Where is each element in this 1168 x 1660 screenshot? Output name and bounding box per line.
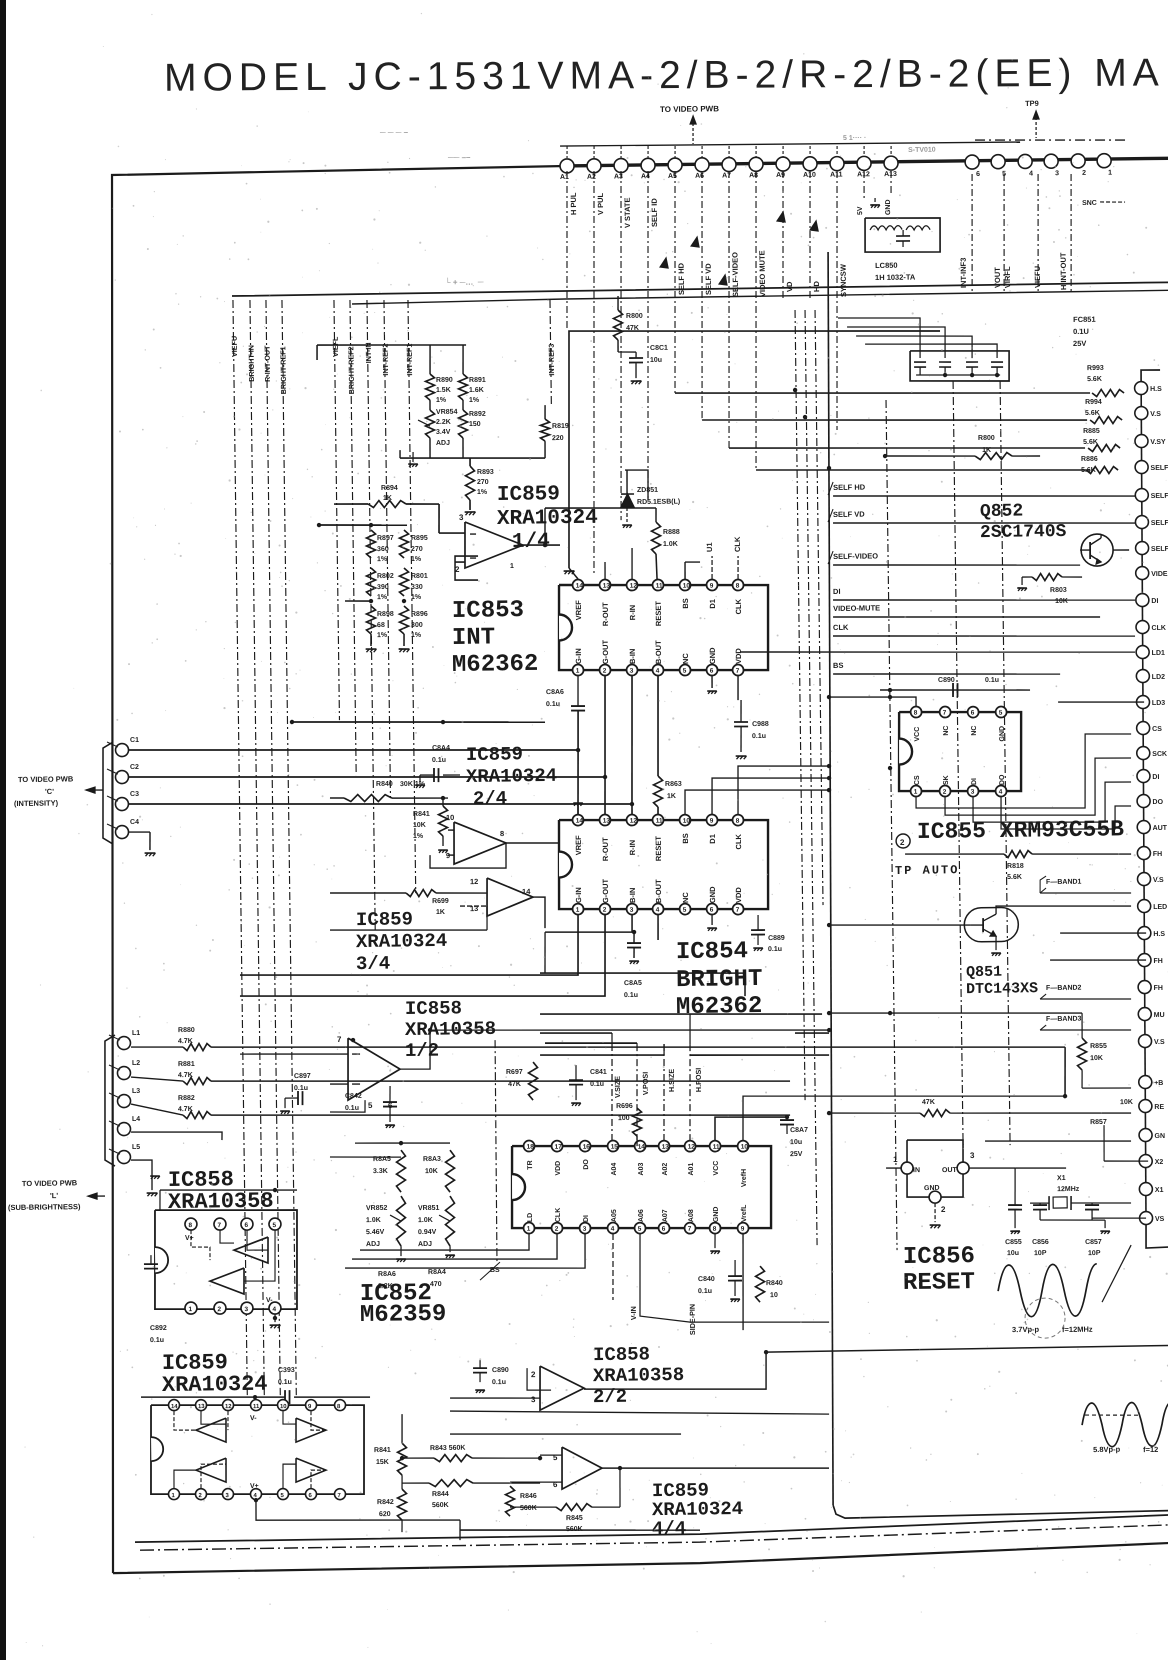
svg-text:XRA10358: XRA10358 — [168, 1189, 274, 1215]
IC858 pkg pin 7 — [214, 1218, 226, 1230]
svg-text:VIDEO-MUTE: VIDEO-MUTE — [833, 603, 880, 613]
svg-text:0.1u: 0.1u — [345, 1105, 359, 1112]
svg-text:5: 5 — [368, 1101, 373, 1110]
svg-text:17: 17 — [555, 1144, 563, 1151]
svg-text:CLK: CLK — [555, 1208, 562, 1222]
op-amp IC859 4/4 — [562, 1447, 603, 1490]
svg-text:10: 10 — [741, 1144, 749, 1151]
IC859 pkg pin 2 — [195, 1489, 206, 1500]
wire y1434 — [450, 1431, 681, 1437]
resistor R863 1K — [653, 776, 663, 807]
svg-text:2: 2 — [531, 1370, 536, 1379]
svg-text:1: 1 — [576, 668, 580, 675]
vertical dash line x805 — [805, 310, 817, 1245]
svg-text:0.1u: 0.1u — [752, 733, 766, 740]
svg-text:VREF: VREF — [574, 600, 583, 621]
svg-text:IC859: IC859 — [466, 743, 523, 766]
svg-text:R802: R802 — [377, 573, 394, 580]
arrow to video pwb — [692, 118, 695, 144]
vertical dash line x815 — [815, 310, 823, 905]
svg-text:V.SIZE: V.SIZE — [613, 1076, 622, 1098]
svg-text:C393: C393 — [278, 1367, 295, 1374]
IC859 pkg opamp A — [196, 1418, 227, 1442]
ground IC854 VREF — [577, 806, 579, 814]
wire R-OUT stub — [604, 562, 606, 580]
svg-text:47K: 47K — [922, 1099, 935, 1106]
svg-text:R993: R993 — [1087, 365, 1104, 372]
svg-text:560K: 560K — [520, 1505, 537, 1512]
svg-text:SK: SK — [943, 775, 950, 785]
svg-text:13: 13 — [662, 1144, 670, 1151]
svg-text:RESET: RESET — [903, 1269, 975, 1297]
svg-text:15: 15 — [611, 1144, 619, 1151]
svg-text:SELF: SELF — [1151, 520, 1168, 527]
resistor R846 560K — [505, 1486, 515, 1516]
svg-text:R-IN: R-IN — [628, 605, 637, 621]
connector pin 5 — [991, 155, 1005, 169]
capacitor C855 10u — [1008, 1204, 1022, 1206]
LC850 internal capacitor — [896, 235, 910, 237]
svg-text:R-OUT: R-OUT — [601, 602, 610, 626]
svg-text:1K: 1K — [667, 793, 676, 800]
terminal 17 DO — [1137, 794, 1150, 807]
svg-text:5.6K: 5.6K — [1087, 376, 1102, 383]
connector pin L2 — [117, 1066, 130, 1079]
IC IC856 RESET box — [906, 1139, 963, 1197]
terminal column bottom bend — [1146, 1223, 1168, 1248]
connector pin A8 — [749, 157, 763, 171]
svg-text:SNC: SNC — [1082, 200, 1097, 207]
svg-text:1.0K: 1.0K — [663, 541, 678, 548]
svg-text:CLK: CLK — [734, 833, 743, 849]
svg-text:M62362: M62362 — [676, 993, 763, 1021]
svg-text:10P: 10P — [1088, 1250, 1101, 1257]
connector TP9 bracket — [975, 138, 1125, 142]
svg-text:C2: C2 — [130, 764, 139, 771]
svg-text:NC: NC — [681, 892, 690, 904]
svg-text:25V: 25V — [790, 1151, 803, 1158]
svg-text:8: 8 — [736, 583, 740, 590]
svg-text:ADJ: ADJ — [366, 1241, 380, 1248]
svg-text:R891: R891 — [469, 377, 486, 384]
svg-text:4: 4 — [272, 1306, 276, 1313]
capacitor C8A7 10u 25V — [780, 1119, 794, 1121]
svg-text:XRA10324: XRA10324 — [497, 507, 598, 531]
svg-text:1%: 1% — [411, 556, 422, 563]
svg-text:VCC: VCC — [713, 1161, 720, 1176]
svg-text:H.S: H.S — [1150, 386, 1162, 393]
capacitor C890 0.1u — [952, 683, 954, 697]
wire Q851 collector — [996, 904, 1131, 914]
svg-text:RESET: RESET — [654, 836, 663, 862]
svg-text:47K: 47K — [508, 1081, 521, 1088]
svg-text:R-OUT: R-OUT — [601, 837, 610, 861]
terminal 6 SELF — [1135, 515, 1148, 528]
svg-text:7: 7 — [736, 907, 740, 914]
svg-text:5 1···· ·: 5 1···· · — [843, 135, 866, 142]
svg-text:R696: R696 — [616, 1103, 633, 1110]
resistor R699 1K — [406, 889, 436, 896]
svg-text:DI: DI — [1152, 774, 1159, 781]
svg-text:6: 6 — [971, 710, 975, 717]
svg-text:BS: BS — [833, 661, 844, 670]
svg-text:1: 1 — [1108, 170, 1112, 177]
svg-text:2.2K: 2.2K — [378, 1283, 393, 1290]
terminal 25 MU — [1138, 1007, 1151, 1020]
terminal 2 V.S — [1135, 406, 1148, 419]
wire A06 down side-pin — [639, 1232, 829, 1325]
svg-text:R840: R840 — [376, 781, 393, 788]
FC851 capacitor 1 — [914, 361, 926, 363]
svg-text:V-: V- — [266, 1297, 273, 1304]
terminal 1 H.S — [1135, 381, 1148, 394]
wire C3 row — [129, 797, 632, 810]
wire y508 — [545, 507, 656, 510]
svg-text:SYNCSW: SYNCSW — [839, 263, 848, 297]
wire C393 row — [141, 1395, 285, 1399]
svg-text:1%: 1% — [377, 632, 388, 639]
svg-text:3: 3 — [459, 513, 464, 522]
svg-text:(INTENSITY): (INTENSITY) — [14, 798, 59, 808]
wire BS IC853 — [684, 562, 686, 579]
bus line BRIGHT-REF1 — [282, 300, 296, 1395]
svg-text:RE: RE — [1154, 1104, 1164, 1111]
svg-text:2: 2 — [603, 668, 607, 675]
svg-text:SELF VD: SELF VD — [833, 510, 865, 519]
FC851 capacitor 3 — [966, 361, 978, 363]
svg-text:560K: 560K — [432, 1502, 449, 1509]
svg-text:4: 4 — [999, 789, 1003, 796]
svg-text:R699: R699 — [432, 898, 449, 905]
svg-text:8: 8 — [736, 818, 740, 825]
resistor R897 360 1% — [366, 530, 376, 558]
terminal 27 +B — [1139, 1075, 1152, 1088]
wire xtal gnd rail — [1040, 1219, 1105, 1221]
svg-text:5V: 5V — [857, 206, 864, 215]
connector pin A3 — [614, 158, 628, 172]
terminal 13 LD3 — [1136, 695, 1149, 708]
svg-text:R896: R896 — [411, 611, 428, 618]
ground VR852 — [400, 1246, 402, 1256]
zener diode ZD851 RD5.1ESB(L) — [621, 494, 634, 507]
svg-text:R8A4: R8A4 — [428, 1269, 446, 1276]
svg-text:G-IN: G-IN — [574, 887, 583, 903]
svg-text:10K: 10K — [413, 822, 426, 829]
svg-text:DO: DO — [999, 774, 1006, 785]
wire C2 row — [129, 771, 605, 783]
svg-text:FH: FH — [1153, 958, 1162, 965]
svg-text:C841: C841 — [590, 1069, 607, 1076]
svg-text:0.94V: 0.94V — [418, 1229, 437, 1236]
svg-text:0.1u: 0.1u — [624, 992, 638, 999]
ground R893 — [465, 511, 476, 513]
wire BS — [833, 671, 1060, 677]
resistor R896 300 1% — [399, 606, 409, 634]
wire y973 — [540, 970, 745, 998]
capacitor C988 0.1u — [734, 721, 748, 723]
resistor R818 5.6K — [905, 853, 1004, 856]
connector pin A1 — [560, 159, 574, 173]
delay line LC850 box — [865, 217, 941, 253]
wire opamp 2/2 inputs — [450, 1397, 540, 1399]
svg-text:H PUL: H PUL — [569, 192, 578, 215]
svg-text:IC859: IC859 — [497, 483, 560, 507]
resistor R894 1K — [368, 500, 406, 508]
svg-text:GND: GND — [708, 647, 717, 664]
wire C1 row — [129, 744, 578, 756]
svg-text:A6: A6 — [695, 173, 704, 180]
wire DI — [833, 596, 1135, 604]
resistor R800b 1K — [975, 452, 1012, 460]
connector pin C2 — [115, 770, 128, 783]
svg-text:10u: 10u — [650, 357, 662, 364]
svg-text:G-OUT: G-OUT — [601, 639, 610, 664]
op-amp IC859 1/4 — [464, 521, 523, 568]
svg-text:B-IN: B-IN — [628, 649, 637, 665]
svg-text:2: 2 — [900, 838, 905, 847]
svg-text:GN: GN — [1154, 1133, 1165, 1140]
svg-text:C857: C857 — [1085, 1239, 1102, 1246]
svg-text:0.1u: 0.1u — [985, 677, 999, 684]
svg-text:A05: A05 — [611, 1209, 618, 1222]
bus line VIEFL — [334, 300, 339, 720]
svg-text:VIDE: VIDE — [1151, 571, 1168, 578]
svg-text:A01: A01 — [688, 1163, 695, 1176]
wire opamp 4/4 output — [602, 1465, 829, 1471]
ground VR851 — [449, 1246, 451, 1252]
connector pin A9 — [776, 157, 790, 171]
FC851 bottom rail — [916, 374, 1000, 376]
svg-text:0.1u: 0.1u — [768, 946, 782, 953]
svg-text:2: 2 — [943, 789, 947, 796]
svg-text:IN: IN — [913, 1167, 920, 1174]
svg-text:8: 8 — [188, 1222, 192, 1229]
wire opamp 4/4 inputs — [540, 1454, 562, 1457]
IC859 pkg pin 10 — [277, 1400, 288, 1411]
svg-text:3: 3 — [583, 1226, 587, 1233]
svg-text:F—BAND2: F—BAND2 — [1046, 985, 1082, 992]
svg-text:FH: FH — [1154, 985, 1163, 992]
svg-text:D1: D1 — [708, 599, 717, 609]
IC859 pkg pin 3 — [222, 1489, 233, 1500]
svg-text:270: 270 — [411, 546, 423, 553]
svg-text:5.6K: 5.6K — [1083, 439, 1098, 446]
capacitor C8C1 10u — [618, 351, 636, 354]
svg-text:BS: BS — [681, 598, 690, 609]
bus line BRIGHT-IN — [250, 300, 264, 1395]
svg-text:A4: A4 — [641, 173, 650, 180]
svg-text:4: 4 — [1029, 170, 1033, 177]
svg-text:XRA10324: XRA10324 — [356, 930, 447, 953]
svg-text:2/2: 2/2 — [593, 1386, 628, 1408]
svg-text:R892: R892 — [469, 411, 486, 418]
svg-text:D1: D1 — [708, 834, 717, 844]
connector pin 3 — [1044, 154, 1058, 168]
terminal 29 GN — [1139, 1128, 1152, 1141]
svg-text:V PUL: V PUL — [596, 192, 605, 215]
wire y1411 — [450, 1406, 829, 1419]
svg-text:SCK: SCK — [1152, 751, 1167, 758]
svg-text:V-IN: V-IN — [629, 1306, 638, 1320]
wire IC858 pkg rail — [160, 1188, 297, 1192]
terminal 21 LED — [1138, 899, 1151, 912]
svg-text:R881: R881 — [178, 1061, 195, 1068]
dashed circle annotation — [1025, 1298, 1066, 1339]
svg-text:1%: 1% — [377, 556, 388, 563]
svg-text:CLK: CLK — [733, 536, 742, 552]
svg-text:5.6K: 5.6K — [1085, 410, 1100, 417]
svg-text:V.S: V.S — [1150, 411, 1161, 418]
svg-text:A5: A5 — [668, 173, 677, 180]
svg-text:12: 12 — [688, 1144, 696, 1151]
ground IC858 label — [150, 1175, 160, 1177]
svg-text:18: 18 — [527, 1144, 535, 1151]
connector pin L4 — [117, 1122, 130, 1135]
waveform pointer line — [1101, 1245, 1132, 1302]
svg-text:7: 7 — [943, 710, 947, 717]
terminal column wire — [1135, 382, 1152, 1224]
svg-text:R840: R840 — [766, 1280, 783, 1287]
wire VrefL down — [742, 1234, 744, 1330]
svg-text:3: 3 — [531, 1395, 536, 1404]
svg-text:R819: R819 — [552, 423, 569, 430]
svg-text:V.S: V.S — [1153, 877, 1164, 884]
waveform 5.8Vp-p f=12MHz — [1082, 1402, 1168, 1447]
svg-text:1: 1 — [510, 563, 514, 570]
wire H band y393 — [675, 388, 1090, 399]
wire H band y470 — [625, 470, 648, 501]
LC850 coil 1 — [870, 226, 902, 230]
svg-text:1.0K: 1.0K — [418, 1217, 433, 1224]
filter block FC851 box — [910, 350, 1010, 383]
wire bottom long — [460, 1527, 700, 1533]
IC858 pkg pin 2 — [214, 1302, 226, 1314]
svg-text:620: 620 — [379, 1511, 391, 1518]
svg-text:R801: R801 — [411, 573, 428, 580]
terminal 28 RE — [1139, 1099, 1152, 1112]
bus line INT-IN — [367, 300, 375, 930]
svg-text:GND: GND — [885, 199, 892, 215]
bus line INT-REF3 — [550, 300, 551, 405]
IC IC854 BRIGHT M62362 box — [558, 817, 769, 912]
svg-text:1/2: 1/2 — [405, 1040, 440, 1062]
IC859 pkg pin 5 — [277, 1489, 288, 1500]
resistor R801 330 1% — [399, 568, 409, 596]
terminal 10 CLK — [1136, 620, 1149, 633]
svg-text:RESET: RESET — [654, 601, 663, 627]
svg-text:5.46V: 5.46V — [366, 1229, 385, 1236]
svg-text:5: 5 — [638, 1226, 642, 1233]
scanner edge bar — [0, 0, 6, 1660]
svg-text:14: 14 — [638, 1144, 646, 1151]
svg-text:C3: C3 — [130, 791, 139, 798]
connector pin L5 — [117, 1150, 130, 1163]
svg-text:R890: R890 — [436, 377, 453, 384]
svg-text:7: 7 — [736, 668, 740, 675]
svg-text:CS: CS — [914, 775, 921, 785]
svg-text:A08: A08 — [688, 1209, 695, 1222]
wire opamp1 inputs — [439, 532, 465, 535]
svg-text:1%: 1% — [477, 489, 488, 496]
IC859 pkg pin 1 — [168, 1489, 179, 1500]
svg-text:R897: R897 — [377, 535, 394, 542]
svg-text:V+: V+ — [185, 1235, 194, 1242]
svg-text:GND: GND — [924, 1185, 940, 1192]
svg-text:C856: C856 — [1032, 1239, 1049, 1246]
resistor R890 1.5K 1% — [425, 374, 435, 400]
svg-text:SELF: SELF — [1151, 493, 1168, 500]
svg-text:10: 10 — [446, 813, 454, 822]
svg-text:16: 16 — [583, 1144, 591, 1151]
bottom bus wire — [135, 1514, 1168, 1542]
svg-text:C988: C988 — [752, 721, 769, 728]
svg-text:V-: V- — [250, 1415, 257, 1422]
terminal 5 SELF — [1135, 488, 1148, 501]
svg-text:X1: X1 — [1155, 1187, 1164, 1194]
svg-text:FC851: FC851 — [1073, 315, 1096, 324]
svg-text:R894: R894 — [381, 485, 398, 492]
wire opamp1 output — [523, 544, 560, 547]
svg-text:VCC: VCC — [914, 727, 921, 742]
svg-text:VDD: VDD — [734, 887, 743, 904]
terminal 24 FH — [1138, 980, 1151, 993]
wire IC855 VCC — [829, 696, 916, 707]
svg-text:1: 1 — [893, 1155, 898, 1164]
svg-text:X1: X1 — [1057, 1175, 1066, 1182]
svg-text:V.S: V.S — [1154, 1039, 1165, 1046]
op-amp IC859 2/4 — [454, 821, 507, 864]
wire IC854 bottom bus3 — [545, 915, 632, 933]
svg-text:11: 11 — [656, 583, 663, 590]
IC859 pkg wires — [174, 1411, 196, 1431]
svg-text:SELF-VIDEO: SELF-VIDEO — [730, 252, 740, 297]
svg-text:0.1u: 0.1u — [590, 1081, 604, 1088]
svg-text:2.2K: 2.2K — [436, 419, 451, 426]
svg-text:R697: R697 — [506, 1069, 523, 1076]
svg-text:1H 1032-TA: 1H 1032-TA — [875, 272, 916, 282]
svg-text:C8A6: C8A6 — [546, 689, 564, 696]
svg-text:4/4: 4/4 — [652, 1518, 687, 1540]
resistor R840b 10 — [755, 1266, 765, 1302]
svg-text:12: 12 — [630, 583, 638, 590]
svg-text:VIDEO MUTE: VIDEO MUTE — [757, 250, 767, 297]
wire SELF HD — [833, 492, 1135, 500]
svg-text:R893: R893 — [477, 469, 494, 476]
wire IC854 GND — [711, 915, 713, 925]
wire H band y448 — [729, 443, 1085, 452]
svg-text:VR851: VR851 — [418, 1205, 440, 1212]
IC859 pkg pin 6 — [305, 1489, 316, 1500]
IC858 pkg pin 6 — [241, 1218, 253, 1230]
IC859 pkg pin 14 — [168, 1400, 179, 1411]
svg-text:SELF-VIDEO: SELF-VIDEO — [833, 551, 878, 561]
svg-text:L3: L3 — [132, 1088, 140, 1095]
wire IC854 D1 up — [712, 776, 830, 814]
wire opamp3 plus input — [330, 928, 487, 932]
svg-text:4: 4 — [656, 668, 660, 675]
wire VIDEO-MUTE — [833, 614, 1100, 621]
op-amp IC859 3/4 — [487, 877, 534, 916]
svg-text:1.6K: 1.6K — [469, 387, 484, 394]
svg-text:X2: X2 — [1155, 1159, 1164, 1166]
wire VrefH IC852 — [742, 1092, 1065, 1140]
wire opamp2 output — [506, 842, 559, 843]
wire LD1 row — [740, 647, 1135, 657]
resistor R844 560K — [429, 1479, 473, 1487]
connector pin A7 — [722, 157, 736, 171]
svg-text:13: 13 — [198, 1404, 205, 1410]
svg-text:10K: 10K — [1120, 1099, 1133, 1106]
